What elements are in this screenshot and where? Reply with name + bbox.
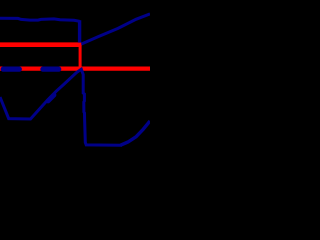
red road R2 (long horizontal, middle) — [0, 66, 150, 70]
red connector R3 (vertical) — [79, 45, 82, 69]
blue route B2 (vertical under B1) — [78, 20, 81, 42]
blue route B6b (bottom-right diagonal tail) — [121, 121, 151, 145]
map canvas — [0, 0, 150, 150]
red road R1 (upper horizontal, left half) — [0, 42, 81, 47]
blue route B1 (top horizontal) — [0, 18, 80, 21]
blue route B3 (diagonal to top-right corner) — [81, 14, 150, 45]
blue route B6 (left descent, valley, 45-degree climb, descent to bottom, bottom-right diagonal) — [0, 69, 122, 145]
blue dash B7 (thicker overlap on climb segment) — [48, 95, 54, 101]
blue dash B4 (over red road, left) — [3, 66, 19, 71]
blue dash B5 (over red road, mid) — [43, 66, 59, 71]
